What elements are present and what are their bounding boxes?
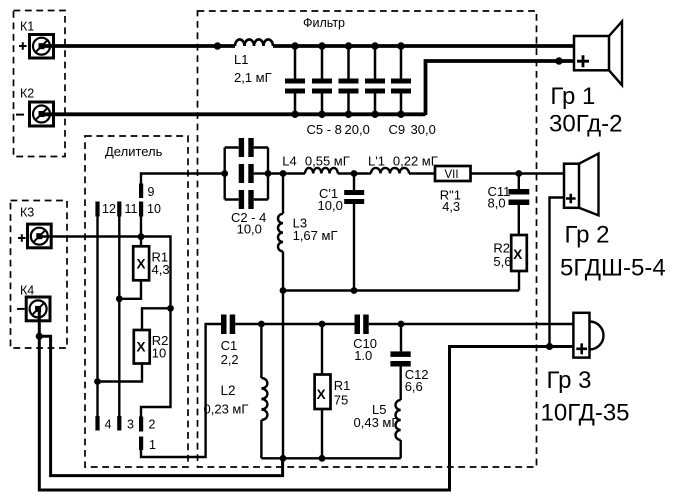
minus sign K2 — [16, 114, 24, 116]
resistor R2 divider — [98, 308, 171, 381]
svg-text:9: 9 — [148, 185, 155, 199]
resistor R2 mid — [511, 235, 527, 291]
junction dots mid — [221, 170, 522, 294]
pin bar 4 — [95, 416, 99, 431]
svg-text:К2: К2 — [20, 87, 34, 101]
svg-text:X: X — [137, 257, 146, 272]
capacitor C12 — [390, 324, 410, 400]
svg-text:L4: L4 — [282, 154, 296, 169]
svg-text:VII: VII — [445, 169, 459, 181]
minus sign K4 — [17, 308, 25, 310]
mid bus wire — [283, 289, 519, 291]
inductor L2 — [261, 324, 267, 458]
wire L1 to speaker Gr1 — [273, 44, 575, 48]
svg-text:30Гд-2: 30Гд-2 — [549, 110, 622, 137]
wire Gr2 plus down to Gr3 — [550, 198, 566, 347]
wire R"1 to Gr2 — [471, 172, 566, 174]
wire C2-4 right to L4 — [268, 172, 305, 174]
wire K1 to L1 — [42, 44, 236, 48]
junction dot K4 — [36, 333, 43, 340]
terminal K3 — [28, 224, 52, 248]
svg-text:1.0: 1.0 — [354, 348, 372, 363]
svg-text:0,22 мГ: 0,22 мГ — [393, 154, 438, 169]
svg-text:2: 2 — [149, 418, 156, 432]
svg-text:1,67 мГ: 1,67 мГ — [293, 228, 338, 243]
inductor L3 — [278, 174, 283, 291]
capacitor C8 — [365, 46, 385, 115]
wire K2 lower bus — [42, 112, 426, 116]
capacitor C1 — [221, 315, 235, 335]
svg-text:Гр 3: Гр 3 — [547, 367, 592, 394]
pin bar 10 — [139, 202, 143, 217]
pin bar 12 — [95, 202, 99, 217]
pin bar 2 — [139, 417, 143, 432]
svg-text:30,0: 30,0 — [411, 122, 436, 137]
svg-text:0,55 мГ: 0,55 мГ — [305, 154, 350, 169]
terminal K1 — [30, 35, 54, 59]
svg-text:К4: К4 — [20, 284, 34, 298]
wire K3 to right rail — [40, 237, 171, 417]
svg-text:2,2: 2,2 — [221, 352, 239, 367]
capacitor C6 — [312, 46, 332, 115]
svg-text:10,0: 10,0 — [237, 222, 262, 237]
pin bar 9 — [139, 184, 143, 199]
capacitor C'1 — [344, 174, 364, 291]
inductor L'1 — [371, 168, 409, 174]
capacitor C9 — [391, 46, 411, 115]
wire C1 to C10 — [235, 323, 354, 325]
svg-text:Гр 2: Гр 2 — [565, 222, 610, 249]
input terminal box K1/K2 — [14, 11, 66, 157]
terminal K4 — [26, 297, 50, 321]
wire pin12 line — [96, 217, 98, 417]
low bus wire — [261, 457, 400, 459]
speaker Gr2 — [564, 154, 599, 216]
terminal K2 — [30, 102, 54, 126]
pin bar 1 — [139, 437, 143, 451]
svg-text:5ГДШ-5-4: 5ГДШ-5-4 — [560, 255, 666, 282]
svg-text:10,0: 10,0 — [318, 198, 343, 213]
wire K4 branch to low bus — [39, 336, 282, 475]
svg-text:К1: К1 — [20, 20, 34, 34]
wire L'1 to R"1 — [409, 172, 435, 174]
svg-text:11: 11 — [125, 202, 138, 216]
junction dots divider — [94, 233, 174, 385]
svg-text:Фильтр: Фильтр — [303, 16, 345, 30]
speaker Gr3 tweeter — [573, 313, 603, 358]
svg-text:X: X — [317, 387, 326, 402]
svg-text:1: 1 — [149, 438, 156, 452]
wire C10 to Gr3 — [369, 323, 574, 325]
pin bar 11 — [117, 202, 121, 217]
svg-text:10: 10 — [152, 346, 166, 361]
vertical link mid-bus to low-bus — [282, 291, 284, 459]
svg-text:L2: L2 — [221, 383, 236, 398]
resistor R1 divider — [119, 237, 149, 299]
input terminal box K3/K4 — [11, 201, 68, 349]
svg-text:C5 - 8: C5 - 8 — [307, 122, 342, 137]
svg-text:X: X — [137, 340, 146, 355]
svg-text:0,43 мГ: 0,43 мГ — [354, 415, 399, 430]
divider (Делитель) box — [85, 136, 188, 467]
svg-text:L'1: L'1 — [368, 154, 385, 169]
junction dots low — [258, 321, 404, 462]
svg-text:10: 10 — [147, 202, 161, 216]
capacitor C7 — [339, 46, 359, 115]
svg-text:8,0: 8,0 — [488, 196, 506, 211]
svg-text:4: 4 — [105, 418, 112, 432]
svg-text:C9: C9 — [389, 122, 406, 137]
svg-text:5,6: 5,6 — [493, 254, 511, 269]
svg-text:10ГД-35: 10ГД-35 — [541, 399, 630, 426]
inductor L5 — [396, 400, 401, 458]
svg-text:20,0: 20,0 — [345, 122, 370, 137]
resistor R"1 box VII — [435, 166, 471, 181]
inductor L1 — [235, 39, 273, 46]
wire into divider from C2-4 — [141, 174, 225, 184]
wire pin1 to C1 input — [141, 324, 221, 457]
svg-text:К3: К3 — [20, 206, 34, 220]
svg-text:0,23 мГ: 0,23 мГ — [204, 402, 249, 417]
inductor L4 — [305, 168, 338, 174]
speaker Gr1 — [574, 21, 622, 85]
svg-text:6,6: 6,6 — [405, 379, 423, 394]
junction dot Gr3 — [546, 343, 553, 350]
wire pin11 line — [118, 217, 120, 417]
capacitor C10 — [355, 315, 369, 335]
svg-text:Гр 1: Гр 1 — [550, 83, 595, 110]
svg-text:3: 3 — [127, 418, 134, 432]
junction dots bottom bus — [291, 111, 404, 118]
svg-text:C1: C1 — [221, 338, 238, 353]
svg-text:4,3: 4,3 — [152, 262, 170, 277]
capacitor C11 — [509, 174, 530, 236]
pin bar 3 — [117, 416, 121, 431]
wire pin10 down — [140, 217, 142, 237]
svg-text:4,3: 4,3 — [442, 199, 460, 214]
junction dots top bus — [214, 42, 405, 49]
filter (Фильтр) box — [198, 11, 537, 467]
capacitor C5 — [285, 46, 305, 115]
svg-text:L1: L1 — [234, 52, 248, 67]
wire L4 to L'1 — [338, 172, 371, 174]
svg-text:X: X — [513, 247, 522, 262]
wire Gr3 lower terminal — [39, 310, 573, 490]
svg-text:2,1 мГ: 2,1 мГ — [234, 70, 272, 85]
svg-text:75: 75 — [334, 393, 348, 408]
svg-text:12: 12 — [102, 202, 116, 216]
svg-text:R1: R1 — [334, 378, 351, 393]
wire riser to Gr1 minus — [426, 61, 576, 115]
resistor R1 low — [315, 324, 331, 458]
svg-text:Делитель: Делитель — [105, 144, 163, 159]
plus sign K3 — [18, 234, 26, 242]
junction dot before Gr1 — [555, 57, 562, 64]
capacitor bank C2-4 — [225, 138, 268, 209]
plus sign K1 — [19, 42, 27, 50]
